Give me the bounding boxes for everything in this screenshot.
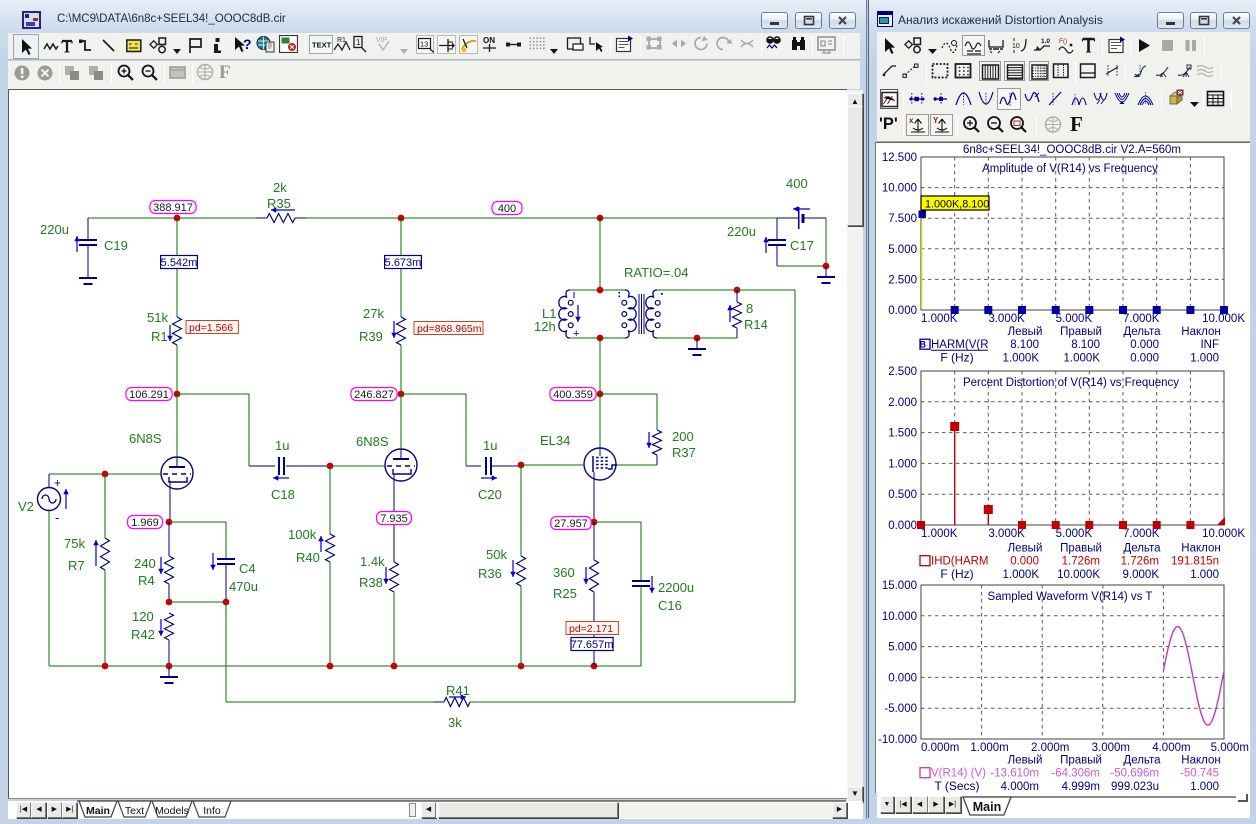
plot1 cursor line: [921, 214, 923, 309]
node C17-ground junction: [823, 263, 830, 270]
svg-text:5.000K: 5.000K: [1056, 528, 1093, 540]
power label pd=868.965m: [414, 322, 483, 335]
left window maximize button: [795, 12, 822, 29]
rtoolbar pause grayed: [1184, 37, 1198, 54]
resistor R35: [256, 217, 267, 219]
node 400 label: [492, 202, 522, 215]
resistor R7: [104, 474, 106, 538]
node R36 bottom junction: [518, 663, 525, 670]
R41 current arrow: [449, 696, 466, 698]
toolbar2 info ball: [13, 64, 31, 82]
resistor R38: [390, 562, 399, 592]
toolbar VIP grayed: [375, 35, 393, 53]
svg-text:8.100: 8.100: [1010, 339, 1039, 351]
toolbar R1 wave: [333, 35, 351, 54]
right window frame: [868, 0, 1256, 824]
wire R39 column top: [400, 218, 402, 317]
wire 1.969 to C4: [169, 521, 226, 523]
svg-text:5.673m: 5.673m: [385, 257, 422, 269]
C17 current arrow: [765, 237, 767, 253]
battery current arrow: [793, 208, 810, 210]
svg-text:1.500: 1.500: [888, 428, 917, 440]
svg-text:1.000K: 1.000K: [921, 313, 958, 325]
transformer secondary bottom wire: [657, 337, 737, 339]
svg-text:-10.000: -10.000: [878, 734, 917, 746]
svg-text:T (Secs): T (Secs): [934, 779, 979, 793]
toolbar grayed step icons: [645, 35, 664, 53]
transformer primary bottom wire: [570, 337, 625, 339]
L1 current arrow: [577, 305, 579, 322]
right window minimize button: [1157, 12, 1184, 29]
rtoolbar3 table icon: [1206, 89, 1226, 109]
toolbar component: [149, 37, 167, 54]
transformer core: [638, 294, 640, 334]
svg-text:1: 1: [356, 38, 361, 47]
tube1 cathode wire: [169, 481, 171, 522]
R25 current arrow: [585, 567, 587, 584]
svg-text:220u: 220u: [40, 222, 69, 237]
rtoolbar component: [904, 37, 922, 54]
svg-text:Правый: Правый: [1060, 755, 1102, 767]
left window close button: [829, 12, 856, 29]
svg-text:51k: 51k: [147, 310, 168, 325]
rtoolbar4 grayed globe: [1044, 115, 1063, 135]
current label 77.657m: [571, 638, 613, 651]
page nav button 1: [31, 802, 46, 818]
svg-text:?: ?: [243, 36, 252, 52]
svg-text:pd=2.171: pd=2.171: [569, 623, 613, 635]
svg-text:R36: R36: [478, 566, 502, 581]
svg-text:F (Hz): F (Hz): [940, 567, 973, 581]
toolbar dropdown2: [399, 42, 409, 49]
rtoolbar2 line: [881, 62, 898, 80]
svg-text:106.291: 106.291: [129, 389, 169, 401]
plot3 waveform sine: [1163, 627, 1224, 726]
toolbar web page icon: [256, 35, 275, 53]
node C18-R40 junction: [327, 463, 334, 470]
toolbar ortho line: [78, 38, 92, 53]
power label pd=1.566: [186, 321, 238, 334]
toolbar node snap icon: [505, 35, 524, 54]
toolbar text tool: [60, 38, 74, 54]
rtoolbar4 zoom out: [986, 115, 1005, 135]
right nav button 1: [912, 796, 928, 813]
svg-text:R35: R35: [267, 196, 291, 211]
R35 current arrow: [271, 209, 295, 211]
rtoolbar3 cross lines: [1047, 89, 1063, 109]
svg-text:220u: 220u: [727, 224, 756, 239]
wire tube2 grid: [330, 465, 385, 467]
svg-text:-: -: [55, 510, 59, 525]
toolbar bus: [126, 39, 142, 53]
node R39-top junction: [398, 215, 405, 222]
toolbar2 F: [219, 62, 231, 84]
node output-transformer top junction: [597, 215, 604, 222]
toolbar2 cancel ball: [36, 64, 54, 82]
node transformer bottom junction: [597, 335, 604, 342]
svg-text:240: 240: [134, 556, 156, 571]
toolbar file status icon: [279, 35, 298, 53]
R38 current arrow: [385, 567, 387, 584]
wire V2 to tube1 grid: [49, 473, 161, 475]
svg-text:C4: C4: [239, 561, 256, 576]
right nav button 3: [945, 796, 961, 813]
wire cathode row2: [169, 601, 226, 603]
vscroll down arrow: [847, 786, 863, 802]
EL34 cathode wire: [593, 472, 595, 522]
svg-text:Правый: Правый: [1060, 326, 1102, 338]
plot1 data squares: [919, 211, 927, 219]
rtoolbar props: [1108, 36, 1126, 55]
right nav dropdown button: [880, 796, 894, 813]
svg-text:-50.696m: -50.696m: [1110, 768, 1159, 780]
svg-text:13: 13: [420, 40, 428, 49]
rtoolbar3 nested valleys: [1114, 89, 1130, 109]
node R14 top junction: [734, 287, 741, 294]
svg-text:-13.610m: -13.610m: [990, 768, 1039, 780]
toolbar ON icon: [481, 35, 500, 54]
svg-text:Sampled Waveform V(R14) vs T: Sampled Waveform V(R14) vs T: [988, 591, 1153, 603]
svg-text:VIP: VIP: [376, 37, 388, 44]
rtoolbar3 wave pressed: [997, 88, 1021, 110]
svg-text:2.500: 2.500: [888, 274, 917, 286]
right window titlebar icon: [877, 11, 893, 27]
V2 current arrow: [65, 489, 67, 509]
current label 5.673m: [385, 256, 422, 269]
rtoolbar select arrow: [881, 36, 897, 56]
capacitor C4: [217, 558, 235, 560]
svg-text:1.000: 1.000: [888, 458, 917, 470]
svg-text:1.969: 1.969: [131, 517, 159, 529]
svg-text:-64.306m: -64.306m: [1051, 768, 1100, 780]
svg-text:R40: R40: [296, 550, 320, 565]
svg-text:10.000: 10.000: [882, 611, 917, 623]
rtoolbar3 gold box: [1168, 89, 1184, 109]
svg-text:400.359: 400.359: [553, 389, 593, 401]
capacitor C17: [776, 218, 778, 240]
plot3 frame and grid: [921, 585, 1224, 739]
tube 6N8S second: [385, 449, 417, 481]
tube 6N8S first: [161, 457, 193, 489]
R14 current arrow: [729, 305, 731, 322]
R36 current arrow: [512, 560, 514, 577]
svg-text:6n8c+SEEL34!_OOOC8dB.cir V2.A=: 6n8c+SEEL34!_OOOC8dB.cir V2.A=560m: [963, 144, 1181, 156]
resistor R14: [736, 290, 738, 302]
svg-text:0.000: 0.000: [1010, 556, 1039, 568]
svg-text:Дельта: Дельта: [1123, 543, 1161, 555]
C4 current arrow: [212, 553, 214, 570]
rtoolbar4 'P': [879, 115, 898, 134]
wire 400-node down to transformer: [599, 218, 601, 290]
plot2 data stems: [954, 427, 956, 525]
svg-text:1.4k: 1.4k: [360, 554, 385, 569]
svg-text:2k: 2k: [273, 180, 287, 195]
svg-text:1.0: 1.0: [1041, 38, 1050, 45]
svg-text:7.935: 7.935: [380, 513, 408, 525]
tube EL34 pentode: [599, 394, 601, 449]
svg-text:1.000m: 1.000m: [970, 742, 1008, 754]
toolbar window split icon: [566, 35, 584, 54]
rtoolbar4 x-axis cursor pressed: [906, 114, 929, 136]
svg-text:27k: 27k: [363, 306, 384, 321]
rtoolbar4 zoom region: [1009, 115, 1029, 135]
svg-text:5.000: 5.000: [888, 244, 917, 256]
svg-text:RATIO=.04: RATIO=.04: [624, 265, 688, 280]
node R38 bottom junction: [391, 663, 398, 670]
svg-text:360: 360: [553, 565, 575, 580]
svg-text:R41: R41: [446, 683, 470, 698]
rtoolbar4 F: [1070, 112, 1083, 137]
svg-text:7.000K: 7.000K: [1123, 313, 1160, 325]
node label 27.957: [551, 517, 592, 530]
svg-text:3.000K: 3.000K: [988, 313, 1025, 325]
svg-text:EL34: EL34: [540, 433, 570, 448]
svg-text:R14: R14: [744, 317, 768, 332]
wire 246.827 to C20: [401, 393, 466, 395]
R40 current arrow: [320, 536, 322, 552]
capacitor C16: [632, 580, 650, 582]
svg-text:0.500: 0.500: [888, 489, 917, 501]
svg-text:1.000: 1.000: [1190, 569, 1219, 581]
toolbar select arrow: [13, 34, 39, 59]
rtoolbar2 stretch icons: [1132, 62, 1148, 80]
svg-text:Левый: Левый: [1008, 755, 1043, 767]
svg-text:5.000m: 5.000m: [1211, 742, 1249, 754]
resistor R37: [653, 430, 662, 455]
svg-text:50k: 50k: [486, 547, 507, 562]
resistor R36: [520, 465, 522, 556]
node R42 bottom junction: [166, 663, 173, 670]
wire node to R37: [600, 393, 657, 395]
left toolbar row2: [8, 61, 860, 89]
svg-text:12h: 12h: [534, 319, 556, 334]
svg-text:IHD(HARM: IHD(HARM: [931, 556, 989, 568]
wire secondary top to feedback: [737, 289, 795, 291]
rtoolbar2 hlines rect pressed: [1004, 61, 1025, 81]
hscroll divider: [409, 803, 416, 817]
svg-text:Main: Main: [973, 800, 1001, 814]
svg-text:R25: R25: [553, 586, 577, 601]
node label 106.291: [126, 388, 172, 401]
transformer primary top wire: [570, 289, 625, 291]
rtoolbar2 dot grid rect: [954, 62, 972, 80]
C16 current arrow: [651, 576, 653, 593]
plot1 frame and grid: [921, 157, 1224, 310]
svg-text:x: x: [909, 116, 914, 125]
node R7 junction: [102, 471, 109, 478]
wire 27.957 to C16: [594, 521, 641, 523]
svg-text:1.000K: 1.000K: [1003, 353, 1040, 365]
rtoolbar2 dense grid rect pressed: [1029, 61, 1049, 81]
svg-text:F(): F(): [1059, 38, 1067, 45]
svg-text:Percent Distortion of V(R14) v: Percent Distortion of V(R14) vs Frequenc…: [963, 377, 1179, 389]
svg-text:R4: R4: [138, 573, 155, 588]
svg-text:6N8S: 6N8S: [129, 431, 162, 446]
toolbar TEXT button: [309, 35, 333, 54]
svg-text:Text: Text: [125, 805, 144, 817]
svg-text:8.100: 8.100: [1071, 339, 1100, 351]
right Main tab: [955, 793, 1255, 817]
svg-text:999.023u: 999.023u: [1111, 781, 1159, 793]
ground below rail: [168, 666, 170, 677]
resistor R39: [397, 317, 406, 345]
wire 106.291 to C18: [177, 393, 249, 395]
svg-text:B: B: [920, 340, 927, 350]
svg-text:120: 120: [132, 609, 154, 624]
svg-text:Info: Info: [203, 805, 221, 817]
wire C17 bottom: [777, 265, 826, 267]
rtoolbar2 dashed rect: [931, 62, 949, 80]
svg-text:5.542m: 5.542m: [161, 257, 198, 269]
toolbar probe1: [352, 35, 368, 54]
node 400.359 junction: [597, 391, 604, 398]
plot1 tooltip: [921, 196, 989, 210]
svg-text:-50.745: -50.745: [1180, 768, 1219, 780]
svg-text:pd=1.566: pd=1.566: [189, 322, 233, 334]
svg-text:V(R14) (V): V(R14) (V): [931, 768, 986, 780]
svg-text:388.917: 388.917: [153, 202, 193, 214]
svg-text:12.500: 12.500: [882, 152, 917, 164]
rtoolbar scope2 pressed: [962, 35, 985, 56]
wire tube2 anode: [400, 394, 402, 449]
toolbar find-wave icon: [765, 35, 782, 53]
svg-text:4.000m: 4.000m: [1001, 781, 1039, 793]
wire EL34 anode: [599, 338, 601, 394]
toolbar2 grayed pan icons: [63, 64, 83, 82]
node transformer top junction: [597, 287, 604, 294]
svg-text:9.000K: 9.000K: [1123, 569, 1160, 581]
hscroll track: [436, 802, 832, 818]
resistor R1: [173, 317, 182, 345]
right nav button 0: [895, 796, 911, 813]
svg-text:400: 400: [786, 176, 808, 191]
source V2: [38, 488, 61, 511]
rtoolbar3 double valley: [1093, 89, 1108, 109]
toolbar info: [212, 37, 223, 54]
svg-text:+: +: [54, 478, 61, 490]
left window title text: [57, 13, 286, 25]
svg-text:Дельта: Дельта: [1123, 326, 1161, 338]
rtoolbar3 hcursor1: [909, 89, 925, 109]
toolbar2 zoom out: [140, 63, 159, 82]
rtoolbar2 waves grayed: [1195, 62, 1216, 80]
svg-text:Y: Y: [933, 116, 939, 125]
tab row svg: [0, 800, 860, 820]
C20 current arrow: [481, 477, 497, 479]
ground below C19: [87, 267, 89, 278]
svg-text:2.000m: 2.000m: [1031, 742, 1069, 754]
left window minimize button: [761, 12, 788, 29]
svg-text:Наклон: Наклон: [1181, 326, 1220, 338]
rtoolbar3 double peak: [1071, 89, 1087, 109]
inner winding polarity mark: [619, 292, 621, 294]
node 1.969 junction: [166, 519, 173, 526]
svg-text:4.000m: 4.000m: [1152, 742, 1190, 754]
node C4 bottom junction: [223, 599, 230, 606]
wire R37 to EL34: [617, 464, 657, 466]
wire tube1 anode: [176, 394, 178, 457]
page nav button 3: [62, 802, 77, 818]
schematic viewport: [8, 89, 847, 799]
svg-text:10.000K: 10.000K: [1202, 528, 1245, 540]
svg-text:Дельта: Дельта: [1123, 755, 1161, 767]
rtoolbar dropdown: [927, 42, 938, 49]
rtoolbar4 y-axis cursor pressed: [930, 114, 953, 136]
page nav button 2: [47, 802, 62, 818]
svg-text:0.000: 0.000: [1130, 353, 1159, 365]
rtoolbar3 hcursor2: [933, 89, 948, 109]
svg-text:3k: 3k: [448, 715, 462, 730]
rtoolbar2 split rect: [1079, 62, 1096, 80]
svg-text:1.000: 1.000: [1190, 781, 1219, 793]
wire 388.917 down to R1: [176, 218, 178, 317]
C19 current arrow: [76, 236, 78, 252]
wire R39 to node 246.827: [400, 345, 402, 394]
node C20 junction: [518, 462, 525, 469]
svg-text:Main: Main: [86, 805, 110, 817]
svg-text:C19: C19: [104, 238, 128, 253]
right toolbar area: [877, 32, 1250, 142]
vscroll up arrow: [847, 93, 863, 110]
toolbar grayed screen icon: [816, 35, 838, 54]
svg-text:C16: C16: [658, 598, 682, 613]
svg-text:27.957: 27.957: [554, 518, 588, 530]
node R40 bottom junction: [327, 663, 334, 670]
resistor R41: [434, 701, 444, 703]
svg-text:2.000: 2.000: [888, 397, 917, 409]
rtoolbar2 skew line: [1104, 62, 1121, 80]
toolbar2 zoom in: [116, 63, 135, 82]
svg-text:1u: 1u: [275, 438, 289, 453]
resistor R42: [165, 613, 174, 640]
toolbar flag: [188, 37, 203, 54]
svg-text:-5.000: -5.000: [884, 703, 917, 715]
resistor R40: [329, 466, 331, 534]
right window bottom border: [868, 818, 1256, 824]
svg-text:77.657m: 77.657m: [571, 639, 614, 651]
wire C4 column down to R41: [225, 602, 227, 702]
R7 current arrow: [95, 540, 97, 566]
wire R38 to bottom rail: [393, 592, 395, 666]
svg-text:7.000K: 7.000K: [1123, 528, 1160, 540]
rtoolbar F() icon: [1058, 36, 1074, 55]
toolbar binoculars icon: [789, 34, 808, 53]
svg-text:Наклон: Наклон: [1181, 543, 1220, 555]
svg-text:C17: C17: [790, 238, 814, 253]
rtoolbar4 zoom in: [962, 115, 981, 135]
node 388.917 junction: [174, 215, 181, 222]
node label 1.969: [128, 516, 163, 529]
svg-text:3.000K: 3.000K: [988, 528, 1025, 540]
svg-text:C20: C20: [478, 487, 502, 502]
svg-text:TEXT: TEXT: [312, 41, 332, 50]
svg-text:1u: 1u: [483, 438, 497, 453]
wire transformer secondary top: [657, 289, 737, 291]
node V2 bottom junction: [102, 663, 109, 670]
node 246.827 junction: [398, 391, 405, 398]
rtoolbar3 color box: [880, 89, 898, 109]
toolbar slider icon: [437, 35, 456, 54]
right window maximize button: [1190, 12, 1217, 29]
node R4-R42 junction: [166, 599, 173, 606]
right nav button 2: [928, 796, 944, 813]
svg-text:R39: R39: [359, 329, 383, 344]
rtoolbar3 valley icon: [978, 89, 994, 109]
R42 current arrow: [160, 619, 162, 636]
toolbar grid dots icon: [528, 35, 547, 54]
resistor R25: [593, 522, 595, 560]
secondary polarity mark: [661, 293, 663, 295]
